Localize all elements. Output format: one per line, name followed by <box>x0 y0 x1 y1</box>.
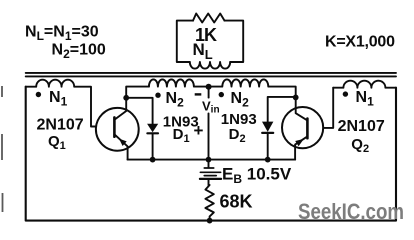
transistor Q1 base bar <box>113 117 116 136</box>
phase dot N2 right <box>219 92 224 97</box>
inductor N_L (scallops on box bottom) <box>190 62 230 69</box>
wire J2 to diode D2 top <box>268 97 296 122</box>
wire center tap to battery <box>208 113 210 159</box>
junction node center tap <box>206 84 212 90</box>
label minus Vin <box>195 93 202 95</box>
battery EB stub <box>208 160 210 186</box>
resistor 68K zigzag <box>205 185 213 221</box>
wire emitter bus (bottom wire) <box>128 159 296 161</box>
wire D1 bottom <box>152 133 154 159</box>
transistor Q2 base bar <box>306 119 309 139</box>
junction node D2-bus <box>265 157 271 163</box>
transformer core (double line) <box>26 73 396 77</box>
resistor R (1K) zigzag <box>193 14 225 23</box>
scan artifact dashes left edge <box>1 86 4 212</box>
svg-text:2N107: 2N107 <box>338 118 385 135</box>
transistor Q1 collector <box>114 98 126 120</box>
svg-text:K=X1,000: K=X1,000 <box>325 34 395 51</box>
battery EB plates <box>204 167 213 169</box>
wire junction J1 to N2 winding <box>126 87 149 98</box>
transistor Q2 circle <box>282 107 323 148</box>
wire D2 bottom <box>267 133 269 160</box>
node Vin center tap stub <box>208 87 210 98</box>
inductor N1 right winding <box>333 81 396 88</box>
wire Q2 base to right N1 <box>323 88 333 128</box>
phase dot N2 left <box>155 93 160 98</box>
svg-text:2N107: 2N107 <box>37 117 84 134</box>
svg-text:SeekIC.com: SeekIC.com <box>298 199 404 224</box>
junction node D1-bus <box>150 157 156 163</box>
Q1 emitter arrow <box>119 139 127 146</box>
Q2 emitter arrow <box>295 139 304 146</box>
inductor N2 left winding <box>149 79 209 86</box>
transistor Q1 emitter <box>114 134 127 159</box>
svg-text:N2=100: N2=100 <box>52 42 106 62</box>
svg-text:68K: 68K <box>220 192 253 212</box>
transistor Q1 circle <box>96 108 139 151</box>
svg-text:+: + <box>194 121 204 140</box>
svg-text:NL=N1=30: NL=N1=30 <box>25 24 99 44</box>
outer loop wire (left vertical, bottom, right vertical) <box>26 87 396 221</box>
svg-text:EB 10.5V: EB 10.5V <box>222 165 292 187</box>
diode D2 triangle <box>262 122 273 132</box>
diode D1 triangle <box>147 124 158 133</box>
wire J1 to diode D1 top <box>126 98 152 124</box>
phase dot N1 right <box>343 91 348 96</box>
phase dot N1 left <box>36 92 41 97</box>
junction node battery-bus <box>206 157 212 163</box>
junction node J2 <box>293 95 299 101</box>
feedback box with resistor 1K on top edge <box>177 21 243 62</box>
diode D1 cathode bar <box>147 132 158 134</box>
inductor N2 right winding <box>209 79 296 97</box>
wire J2 to Q2 collector <box>296 97 308 120</box>
junction node resistor-bottom <box>207 218 213 224</box>
inductor N1 left winding <box>26 80 96 127</box>
transistor Q2 emitter <box>295 136 307 159</box>
junction node J1 <box>123 95 129 101</box>
diode D2 cathode bar <box>262 132 273 134</box>
